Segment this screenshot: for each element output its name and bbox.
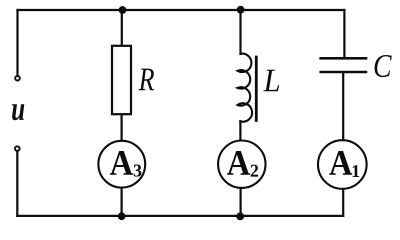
wire A1 to bottom rail [342,189,344,216]
wire C to A1 [342,73,344,140]
ammeter A3 label [110,151,133,175]
resistor R [112,46,131,114]
wire left lower vertical [16,152,18,216]
wire R to A3 [120,115,122,140]
node junction dot top left [119,6,127,14]
ammeter A1 circle [318,140,367,189]
terminal upper (open circle) [15,76,20,81]
label L [263,70,279,92]
inductor L coil [238,54,253,122]
node junction dot bottom left [118,212,126,220]
capacitor C top plate [321,57,366,60]
terminal lower (open circle) [15,146,20,151]
label u (source voltage) [12,104,24,120]
ammeter A3 circle [98,141,145,188]
node junction dot top right [237,6,245,14]
wire left upper vertical [16,10,18,75]
wire top rail [18,9,345,11]
label C [375,55,392,77]
ammeter A1 label [329,151,352,175]
wire bottom rail [17,215,343,217]
node junction dot bottom right [236,213,244,221]
wire A3 to bottom rail [120,189,122,216]
wire L to A2 [239,121,241,140]
wire R branch top [121,10,123,45]
inductor L core bar [255,57,258,121]
wire A2 to bottom rail [240,189,242,216]
ammeter A2 circle [218,141,265,188]
wire L branch top [239,10,241,54]
ammeter A2 label [227,151,250,175]
label R [139,69,155,91]
wire C branch top [343,10,345,57]
capacitor C bottom plate [321,71,366,74]
